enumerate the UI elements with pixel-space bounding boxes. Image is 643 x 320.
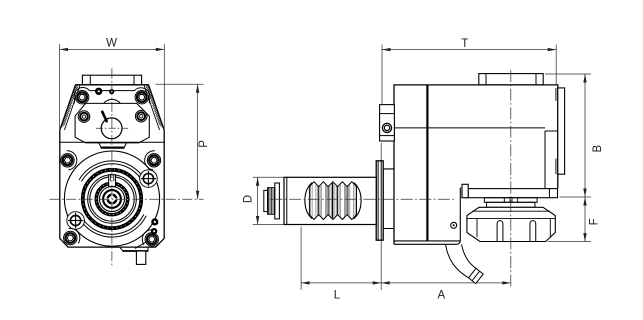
right side plate (558, 88, 565, 174)
dimension F line (584, 197, 586, 242)
spindle clamp ring hatched (83, 170, 141, 228)
cross screw lower-left (67, 212, 85, 230)
top bearing cover outline (74, 88, 150, 104)
dimension L line (301, 282, 381, 284)
shank cylinder (284, 177, 376, 224)
dimension B extension lines (545, 73, 591, 75)
housing ring arc inner bottom (81, 214, 144, 234)
left view top cap (82, 75, 141, 85)
cable (446, 244, 469, 277)
shank flange (376, 161, 383, 240)
spindle ring r8.9 (103, 190, 121, 208)
spindle ring r22 (90, 177, 134, 221)
dimension T line (382, 49, 556, 51)
dimension W line (60, 48, 165, 50)
housing ring arc outer bottom (78, 216, 146, 237)
head flange left block (462, 184, 468, 197)
shank neck (383, 169, 394, 229)
right view top cap (479, 74, 543, 85)
hex screw mid-left (61, 154, 74, 167)
keyway (109, 175, 116, 187)
spindle step 2 (487, 202, 535, 207)
dimension A line (381, 282, 511, 284)
right view body outline (394, 85, 558, 244)
pin top center-right (109, 89, 114, 94)
body joint line (60, 141, 164, 143)
bottom tab lip (120, 247, 149, 251)
dimension P line (197, 84, 199, 199)
upper circle centerline horizontal (96, 127, 130, 129)
shank end cap with knurl (275, 183, 280, 219)
spindle ring r24 (88, 175, 137, 224)
housing ring arc outer top (79, 161, 146, 182)
shank serration (305, 183, 312, 219)
svg-text:T: T (461, 38, 468, 50)
inner vertical edge (426, 85, 428, 241)
svg-text:A: A (437, 289, 445, 301)
dimension P extension line (156, 83, 204, 85)
dimension W extension lines (59, 44, 61, 131)
hex screw top-left (75, 91, 88, 104)
hatching on right slant (144, 85, 160, 130)
dimension L extension line (300, 227, 302, 291)
upper center shaft circle (101, 118, 122, 139)
collet centerline (510, 70, 512, 288)
spindle ring r12.5 (100, 187, 125, 212)
hex screw bottom-right (145, 233, 158, 246)
hatching on left slant (64, 85, 80, 130)
head flange (462, 189, 558, 198)
spindle housing circle (64, 151, 159, 246)
left view horizontal centerline (50, 198, 204, 200)
dimension D line (257, 177, 259, 224)
pin right lower (151, 228, 157, 234)
hex screw top-right (135, 91, 148, 104)
screw second-row left (78, 111, 90, 123)
spindle gear ring (96, 183, 127, 214)
body joint line right view (394, 127, 545, 129)
set screw on body (451, 222, 457, 228)
bottom tab block (136, 251, 145, 264)
pin right upper (151, 218, 158, 225)
svg-text:B: B (592, 145, 604, 153)
fillet arc bottom-right (142, 230, 153, 245)
bottom tab chamfer line (135, 242, 146, 248)
dimension B line (584, 74, 586, 197)
svg-text:D: D (243, 195, 255, 203)
hex screw mid-right (147, 154, 160, 167)
cross screw upper-right (140, 170, 158, 188)
shank centerline (271, 198, 457, 200)
ER collet nut (467, 207, 555, 241)
svg-text:F: F (589, 218, 601, 225)
clamp block (380, 105, 395, 141)
svg-text:P: P (198, 140, 210, 148)
fillet arc mid-right (145, 151, 155, 170)
arc bump on plate top edge (104, 99, 121, 103)
screw second-row right (135, 110, 147, 122)
hex screw bottom-left (64, 231, 77, 244)
housing ring arc inner top (81, 164, 143, 184)
ext line for L/A at shank flange face (380, 143, 382, 290)
right view bottom edges (394, 240, 460, 242)
fillet arc bottom-left (69, 228, 80, 243)
right recess (544, 131, 546, 189)
cover plate bottom tab (99, 143, 127, 148)
adjust lever (102, 112, 106, 121)
left view vertical centerline (111, 69, 113, 269)
dimension F extension line (548, 241, 591, 243)
fillet arc mid-left (67, 151, 77, 170)
svg-text:W: W (106, 38, 117, 50)
octagonal cover plate (75, 103, 149, 142)
svg-text:L: L (334, 289, 341, 301)
spindle step 1 with tangs (484, 198, 537, 203)
left view body outline (60, 85, 164, 247)
clamp block ring (382, 123, 391, 132)
dimension D extension lines (253, 176, 284, 178)
spindle hub (108, 195, 117, 204)
pin top center-left (95, 88, 102, 95)
dimension T extension lines (381, 45, 383, 105)
